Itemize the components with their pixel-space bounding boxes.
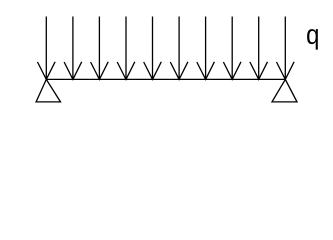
load arrow 5: [144, 17, 162, 80]
load arrow 3: [91, 17, 109, 80]
load arrow 10: [277, 17, 295, 80]
left support pin: [36, 79, 60, 102]
load arrow 6: [170, 17, 188, 80]
load label q: [307, 29, 318, 50]
load arrow 1: [38, 17, 56, 80]
beam: [46, 78, 285, 80]
load arrow 7: [197, 17, 215, 80]
load arrow 4: [117, 17, 135, 80]
load arrow 9: [250, 17, 268, 80]
load arrow 2: [64, 17, 82, 80]
right support pin: [272, 79, 297, 102]
load arrow 8: [223, 17, 241, 80]
